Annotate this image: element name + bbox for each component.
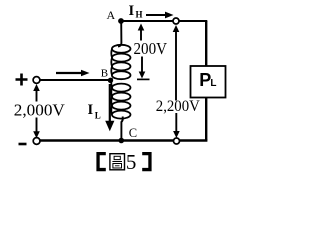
dimension arrow 200V (down head) [141,57,143,73]
terminal on top rail (open circle) [173,18,179,24]
node A junction dot [118,18,124,24]
svg-text:2,200V: 2,200V [156,98,201,115]
svg-text:200V: 200V [134,39,168,58]
svg-text:2,000V: 2,000V [14,100,65,119]
autotransformer winding section B-C (coil loops) [111,78,130,119]
arrow IL current direction [109,84,111,123]
caption right bracket [142,152,151,171]
plus sign [16,74,28,86]
svg-text:C: C [129,126,137,140]
svg-text:I: I [88,102,94,118]
svg-text:5: 5 [126,150,136,174]
caption left bracket [96,152,105,171]
wire: lead from node A down into winding [118,21,121,47]
node C junction dot [119,138,125,144]
svg-text:A: A [107,8,116,22]
caption character tu (figure) [110,154,125,170]
wire: right vertical lower (load bottom to bottom rail) [205,98,207,141]
node B junction dot [108,78,113,83]
terminal on bottom rail (open circle) [174,138,180,144]
minus sign [19,143,27,146]
wire: source + feed to node B [40,79,111,81]
dimension arrow 200V (up head) [138,24,145,31]
svg-text:L: L [95,111,101,121]
svg-text:B: B [101,68,108,80]
svg-text:I: I [129,3,135,19]
dimension end tick at B level [137,78,150,80]
wire: bottom rail [40,139,208,142]
terminal - (open circle) [33,138,40,145]
autotransformer winding section A-B (coil loops) [111,45,130,79]
dimension arrow 2,200V (up head) [173,25,180,32]
wire: right vertical upper (corner to load top) [205,21,207,67]
load box PL [191,66,226,98]
svg-text:L: L [210,78,216,89]
svg-text:H: H [136,10,143,20]
arrow IH current direction [146,14,167,16]
terminal + (open circle) [33,77,40,84]
dimension arrow 2,200V (down head) [175,113,177,132]
wire: top rail A to top-right corner [121,20,207,22]
dimension arrow 2,000V (up head) [33,84,40,91]
arrow feed current direction [56,72,83,74]
dimension arrow 2,000V (down head) [36,118,38,133]
wire: lead from winding bottom down to node C [121,117,122,141]
